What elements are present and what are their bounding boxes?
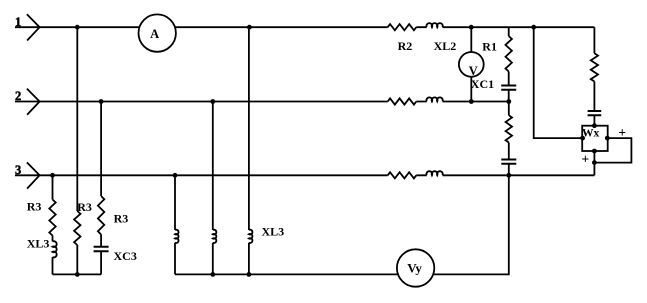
capacitor XC1 <box>501 86 516 90</box>
wattmeter Wx box <box>582 126 608 151</box>
svg-text:A: A <box>150 27 159 41</box>
junction line1 / load1 branch B <box>75 25 80 30</box>
junction line2 / load2 branch B <box>210 99 215 104</box>
resistor R2 (line 1) <box>388 24 417 30</box>
wire Wx bottom to line 3 <box>593 151 595 175</box>
svg-text:3: 3 <box>15 163 21 177</box>
resistor line 3 series <box>388 172 417 178</box>
wire load1 branch A segments <box>52 175 54 274</box>
resistor R3 branch A <box>49 200 55 236</box>
wire line-3 feeder segments <box>15 174 594 176</box>
voltmeter V circle <box>459 52 484 77</box>
resistor second chain <box>506 115 512 142</box>
junction line1 / load2 branch C <box>247 25 252 30</box>
junction Wx right terminal <box>605 136 610 141</box>
junction line1 / Wx current lead <box>531 25 536 30</box>
capacitor Wx voltage branch <box>588 111 602 115</box>
junction line3 / load1 branch A <box>50 173 55 178</box>
junction load2 neutral c <box>247 272 252 277</box>
junction line3 / load2 branch A <box>173 173 178 178</box>
svg-text:R2: R2 <box>398 39 413 53</box>
inductor line 2 series <box>426 97 442 101</box>
resistor R3 branch B <box>74 211 80 245</box>
junction load2 neutral b <box>210 272 215 277</box>
junction line3 / chain2-Vy riser <box>506 173 511 178</box>
resistor R3 branch C <box>98 196 104 235</box>
junction line1 / voltmeter V branch <box>469 25 474 30</box>
wire Wx right loop <box>594 138 631 163</box>
svg-text:1: 1 <box>15 15 21 29</box>
wire line-2 feeder segments <box>15 101 509 103</box>
wire load1 branch B segments <box>76 27 78 274</box>
wire second R-C branch segments <box>508 102 510 176</box>
capacitor XC3 <box>94 247 109 251</box>
svg-text:XC3: XC3 <box>114 249 137 263</box>
resistor R1 <box>506 36 512 72</box>
inductor XL3 load2 branch C <box>249 230 253 243</box>
junction line2 / RC chains <box>506 99 511 104</box>
terminal arrow phase 3 <box>27 162 40 188</box>
svg-text:XL3: XL3 <box>27 237 50 251</box>
inductor line 3 series <box>426 171 442 175</box>
svg-text:+: + <box>582 151 590 166</box>
wire load2 branch B segments <box>212 102 214 275</box>
junction Wx loop / line 3 node <box>592 160 597 165</box>
wire voltmeter V branch vertical <box>470 27 472 101</box>
junction Wx bottom terminal <box>592 149 597 154</box>
svg-text:R3: R3 <box>77 200 92 214</box>
svg-text:Vy: Vy <box>407 261 422 276</box>
svg-text:XL3: XL3 <box>262 224 285 238</box>
junction line2 / load1 branch C <box>99 99 104 104</box>
svg-text:XL2: XL2 <box>434 39 457 53</box>
inductor load2 branch B <box>213 230 217 243</box>
svg-text:R1: R1 <box>482 39 497 53</box>
wire Wx voltage branch segments <box>593 27 595 126</box>
junction line2 / voltmeter V branch <box>469 99 474 104</box>
wire load1 neutral rail <box>53 273 102 275</box>
wire load2 neutral rail to Vy riser <box>175 175 509 274</box>
wire load1 branch C segments <box>100 102 102 275</box>
wire load2 branch C segments <box>248 27 250 274</box>
capacitor second chain <box>501 160 516 164</box>
resistor line 2 series <box>388 98 417 104</box>
voltmeter Vy circle <box>397 249 434 286</box>
terminal arrow phase 1 <box>27 14 40 40</box>
inductor XL3 branch A <box>53 241 57 257</box>
junction Wx top terminal <box>592 123 597 128</box>
terminal arrow phase 2 <box>27 89 40 115</box>
svg-text:R3: R3 <box>114 212 129 226</box>
svg-text:R3: R3 <box>27 200 42 214</box>
inductor load2 branch A <box>175 230 179 243</box>
svg-text:XC1: XC1 <box>471 77 494 91</box>
wire line-1 feeder segments <box>15 26 594 28</box>
ammeter A circle <box>139 14 176 51</box>
svg-text:+: + <box>618 125 626 140</box>
svg-text:2: 2 <box>15 89 21 103</box>
junction load1 neutral <box>75 272 80 277</box>
wire load2 branch A segments <box>174 175 176 274</box>
wire R1-XC1 branch segments <box>508 27 510 101</box>
svg-text:V: V <box>469 64 478 78</box>
junction Wx left terminal <box>580 136 585 141</box>
wire Wx current lead from line 1 <box>534 27 583 138</box>
inductor XL2 (line 1) <box>426 23 442 27</box>
resistor Wx voltage branch <box>591 53 598 81</box>
